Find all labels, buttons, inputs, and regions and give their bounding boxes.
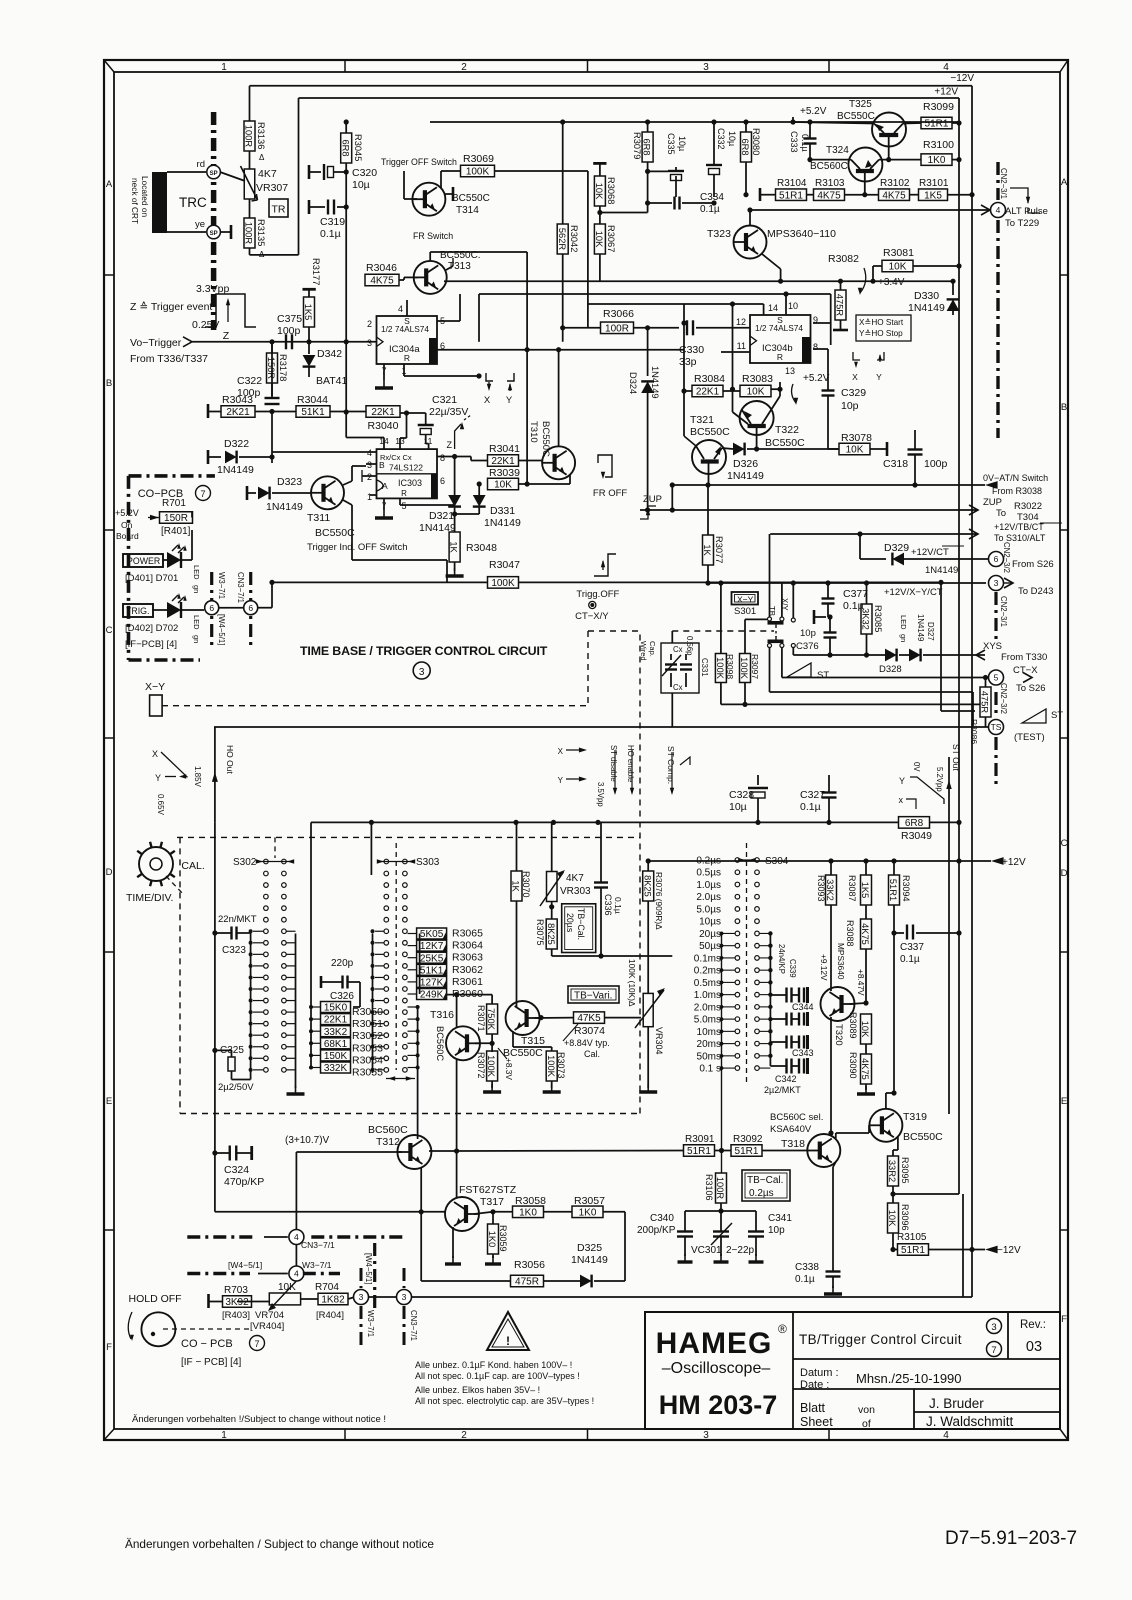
wire ZUP row	[640, 509, 978, 511]
svg-text:R3095: R3095	[900, 1157, 910, 1184]
svg-text:[R404]: [R404]	[316, 1310, 344, 1321]
svg-text:100K: 100K	[715, 657, 725, 680]
svg-text:Cx: Cx	[673, 645, 683, 654]
svg-text:6R8: 6R8	[340, 139, 350, 156]
svg-text:R3054: R3054	[352, 1054, 383, 1066]
wire +12V/X-Y/CT row	[708, 582, 986, 584]
IC304a	[377, 316, 438, 364]
svg-text:−12V: −12V	[950, 73, 974, 84]
S303 left bus	[372, 934, 374, 1074]
CAL TIME/DIV knob	[139, 847, 173, 881]
resistor R3079	[642, 132, 653, 162]
svg-text:TB−Cal.: TB−Cal.	[747, 1175, 783, 1186]
svg-text:03: 03	[1026, 1339, 1042, 1355]
svg-text:D330: D330	[914, 290, 939, 302]
svg-text:R3103: R3103	[815, 178, 845, 189]
wire CT-X row	[782, 677, 988, 679]
svg-text:BC560C: BC560C	[435, 1026, 445, 1061]
resistor R3091	[457, 1150, 684, 1153]
svg-text:[W4−5/1]: [W4−5/1]	[228, 1260, 262, 1270]
svg-text:R3048: R3048	[466, 542, 497, 554]
S302 left bus	[250, 931, 252, 1075]
SP contact rd	[167, 171, 206, 173]
svg-text:13: 13	[785, 366, 795, 376]
svg-text:Z ≙ Trigger event: Z ≙ Trigger event	[130, 301, 212, 313]
svg-text:HO enable: HO enable	[626, 745, 635, 782]
wire T315 collector	[516, 901, 518, 1007]
X-Y switch box	[732, 592, 759, 605]
capacitor C318	[908, 448, 923, 450]
svg-text:C338: C338	[795, 1262, 819, 1273]
svg-text:22µ/35V: 22µ/35V	[429, 406, 468, 418]
svg-text:127K: 127K	[420, 978, 444, 989]
svg-text:4: 4	[367, 448, 372, 458]
svg-text:0.5ms: 0.5ms	[694, 978, 721, 989]
svg-text:100K: 100K	[491, 578, 515, 589]
svg-text:R3104: R3104	[777, 178, 807, 189]
resistor R3070	[511, 871, 522, 901]
svg-text:R3093: R3093	[816, 875, 826, 902]
XY bracket symbols	[853, 352, 860, 360]
svg-text:Cal.: Cal.	[584, 1049, 600, 1059]
svg-text:R3042: R3042	[569, 225, 579, 252]
svg-text:R3097: R3097	[750, 654, 760, 679]
svg-text:100K: 100K	[546, 1055, 556, 1078]
transistor T311	[311, 476, 344, 509]
wire T312 base from conn4	[296, 1151, 402, 1153]
svg-text:51R1: 51R1	[735, 1146, 759, 1157]
svg-text:2: 2	[461, 62, 467, 73]
svg-text:8: 8	[813, 342, 818, 352]
svg-text:R3106: R3106	[704, 1174, 714, 1201]
svg-text:R3052: R3052	[352, 1030, 383, 1042]
pot VR303	[551, 822, 553, 872]
svg-text:750K: 750K	[486, 1008, 496, 1031]
svg-text:POWER: POWER	[127, 556, 160, 566]
resistor R3085	[861, 604, 872, 634]
svg-text:1K0: 1K0	[487, 1231, 497, 1248]
R306x vertical bus	[370, 822, 372, 875]
svg-text:R3055: R3055	[352, 1067, 383, 1079]
svg-text:2µ2/MKT: 2µ2/MKT	[764, 1085, 801, 1095]
svg-text:15K0: 15K0	[324, 1003, 348, 1014]
svg-text:R3022: R3022	[1014, 501, 1042, 512]
svg-text:10K: 10K	[846, 445, 864, 456]
svg-text:22K1: 22K1	[371, 407, 395, 418]
svg-text:100K (10K)Δ: 100K (10K)Δ	[627, 959, 637, 1007]
svg-text:J. Waldschmitt: J. Waldschmitt	[926, 1414, 1014, 1429]
svg-text:R3068: R3068	[606, 177, 616, 204]
wire T317 emitter	[452, 1227, 454, 1258]
svg-text:6: 6	[209, 603, 214, 613]
svg-text:C318: C318	[883, 458, 908, 470]
svg-text:FR OFF: FR OFF	[593, 488, 627, 499]
POWER box	[123, 554, 163, 567]
S302 right bus	[295, 934, 297, 1079]
warning triangle	[487, 1312, 529, 1350]
svg-text:R3089: R3089	[848, 1012, 858, 1039]
svg-text:R3091: R3091	[685, 1134, 715, 1145]
svg-text:0.1µ: 0.1µ	[320, 228, 341, 240]
svg-text:R3046: R3046	[366, 262, 397, 274]
svg-text:BC550C: BC550C	[903, 1131, 943, 1143]
svg-text:5.0µs: 5.0µs	[696, 904, 721, 915]
svg-text:LED: LED	[899, 615, 908, 630]
svg-text:B: B	[379, 460, 385, 470]
wire loop IC304 upper	[479, 293, 831, 295]
X Y pulse symbol mid	[486, 373, 493, 381]
svg-text:C376: C376	[796, 641, 819, 652]
wire pin8 Z node	[437, 456, 471, 458]
svg-text:R3075: R3075	[535, 919, 545, 946]
svg-text:10p: 10p	[768, 1225, 785, 1236]
wire T318 emitter	[833, 1162, 836, 1167]
wire T312 base through	[429, 1150, 457, 1152]
capacitor C324	[229, 1146, 231, 1161]
svg-text:4: 4	[398, 304, 403, 314]
wire x527 vertical	[526, 252, 528, 484]
svg-text:470p/KP: 470p/KP	[224, 1176, 264, 1188]
svg-text:100R: 100R	[605, 323, 629, 334]
wire ALT pulse row	[750, 209, 990, 211]
resistor R3096	[888, 1203, 899, 1233]
svg-text:CO − PCB: CO − PCB	[181, 1338, 233, 1350]
S301 wires	[781, 583, 783, 617]
wire T316 collector	[456, 995, 458, 1027]
svg-text:IC303: IC303	[398, 478, 422, 488]
CRT deflection dash line	[211, 112, 217, 330]
svg-text:0.56p: 0.56p	[685, 636, 694, 656]
svg-text:R3081: R3081	[883, 247, 914, 259]
svg-text:22K1: 22K1	[696, 387, 720, 398]
dashed box timebase	[177, 836, 640, 838]
svg-text:0.1µ: 0.1µ	[700, 204, 720, 215]
S304 dash wiper	[746, 843, 748, 1082]
wire +12V/TB/CT row	[770, 533, 978, 535]
svg-text:Z: Z	[223, 330, 230, 342]
wire T315 emitter	[512, 1031, 514, 1047]
svg-text:24n4/KP: 24n4/KP	[777, 944, 786, 974]
svg-text:1.0µs: 1.0µs	[696, 880, 721, 891]
svg-text:[D401] D701: [D401] D701	[125, 573, 178, 584]
svg-text:CN3−7/1: CN3−7/1	[236, 572, 245, 603]
svg-text:4K75: 4K75	[860, 923, 870, 945]
svg-text:3.3Vpp: 3.3Vpp	[196, 283, 229, 295]
svg-text:51R1: 51R1	[779, 190, 803, 201]
svg-text:C330: C330	[679, 344, 704, 356]
wire S303 bus to T312	[417, 1007, 419, 1139]
svg-text:5.0ms: 5.0ms	[694, 1015, 721, 1026]
svg-text:+8.47V: +8.47V	[856, 969, 866, 996]
svg-text:Alle unbez. Elkos haben 35V– !: Alle unbez. Elkos haben 35V– !	[415, 1385, 540, 1395]
svg-text:R3099: R3099	[923, 101, 954, 113]
svg-text:R3057: R3057	[574, 1195, 605, 1207]
svg-text:HAMEG: HAMEG	[656, 1327, 773, 1360]
sheet circles	[987, 1319, 1002, 1334]
wire HO out vertical	[214, 727, 216, 822]
svg-text:From T330: From T330	[1001, 652, 1047, 663]
svg-text:C: C	[1061, 838, 1068, 849]
svg-text:R3061: R3061	[452, 976, 483, 988]
svg-text:T321: T321	[690, 414, 714, 426]
svg-text:13: 13	[395, 436, 405, 446]
border frame	[104, 60, 1068, 1440]
capacitor C343	[785, 1036, 787, 1049]
svg-text:R3102: R3102	[880, 178, 910, 189]
svg-text:1: 1	[221, 1430, 227, 1441]
wire diode join	[454, 508, 456, 514]
svg-text:1.85V: 1.85V	[193, 766, 202, 788]
svg-text:TS: TS	[991, 722, 1002, 732]
svg-text:A: A	[106, 179, 113, 190]
svg-text:10µ: 10µ	[727, 131, 737, 146]
wire +12V right bus	[958, 98, 960, 1194]
svg-text:10µ: 10µ	[352, 179, 370, 191]
svg-text:[D402] D702: [D402] D702	[125, 623, 178, 634]
svg-text:SP: SP	[210, 231, 218, 237]
svg-text:C: C	[106, 625, 113, 636]
svg-text:20µs: 20µs	[565, 913, 575, 933]
svg-text:C375: C375	[277, 313, 302, 325]
svg-text:+3.4V: +3.4V	[878, 277, 905, 288]
svg-text:Trigg.OFF: Trigg.OFF	[576, 589, 619, 600]
svg-text:4K7: 4K7	[566, 873, 584, 884]
svg-text:4K75: 4K75	[370, 276, 394, 287]
svg-text:R3045: R3045	[353, 134, 363, 161]
svg-text:1N4149: 1N4149	[908, 302, 945, 314]
svg-text:BC560C: BC560C	[810, 161, 848, 172]
svg-text:332K: 332K	[324, 1063, 348, 1074]
svg-text:0.1µ: 0.1µ	[800, 801, 821, 813]
svg-text:D322: D322	[224, 438, 249, 450]
svg-text:TB/Trigger Control Circuit: TB/Trigger Control Circuit	[799, 1332, 962, 1347]
svg-text:51R1: 51R1	[888, 879, 898, 901]
svg-text:−12V: −12V	[997, 1245, 1021, 1256]
svg-text:X−Y: X−Y	[737, 595, 754, 605]
svg-text:[W4−5/1]: [W4−5/1]	[364, 1253, 373, 1284]
ZUP step symbol	[640, 506, 656, 519]
svg-text:100R: 100R	[244, 222, 254, 245]
svg-text:150R: 150R	[266, 357, 276, 380]
capacitor C334	[673, 197, 675, 210]
svg-text:XYS: XYS	[983, 641, 1002, 652]
svg-text:R3039: R3039	[489, 467, 520, 479]
svg-text:W3−7/1: W3−7/1	[302, 1260, 332, 1270]
svg-text:D: D	[106, 867, 113, 878]
svg-text:R3063: R3063	[452, 952, 483, 964]
svg-text:T315: T315	[521, 1035, 545, 1047]
svg-text:R3051: R3051	[352, 1018, 383, 1030]
svg-text:150K: 150K	[324, 1051, 348, 1062]
svg-text:KSA640V: KSA640V	[770, 1124, 812, 1135]
svg-text:R3044: R3044	[297, 394, 328, 406]
TB-Cal 20us box	[562, 904, 596, 953]
svg-text:Trigger OFF Switch: Trigger OFF Switch	[381, 157, 457, 167]
wire C335 row	[648, 170, 668, 172]
svg-text:From R3038: From R3038	[992, 486, 1042, 496]
svg-text:2: 2	[367, 319, 372, 329]
svg-text:Y: Y	[155, 773, 161, 783]
svg-text:S304: S304	[765, 856, 789, 867]
transistor T315	[506, 1001, 540, 1035]
svg-text:ALT Pulse: ALT Pulse	[1005, 206, 1048, 217]
svg-text:To S310/ALT: To S310/ALT	[994, 533, 1046, 543]
svg-text:C322: C322	[237, 375, 262, 387]
resistor R3094	[889, 875, 900, 905]
svg-text:BC550C: BC550C	[837, 111, 875, 122]
svg-text:R3080: R3080	[751, 128, 761, 155]
svg-text:8K25: 8K25	[546, 923, 556, 945]
svg-text:150R: 150R	[164, 513, 188, 524]
wire row 1211 left	[215, 1211, 445, 1213]
svg-text:T318: T318	[781, 1138, 805, 1150]
svg-text:LED: LED	[192, 565, 201, 580]
svg-text:6: 6	[440, 476, 445, 486]
svg-text:TRC: TRC	[179, 195, 207, 210]
svg-text:C335: C335	[666, 133, 676, 155]
svg-text:20ms: 20ms	[697, 1039, 721, 1050]
svg-text:3K32: 3K32	[861, 608, 871, 630]
svg-text:200p/KP: 200p/KP	[637, 1225, 676, 1236]
svg-text:+5.2V: +5.2V	[803, 373, 830, 384]
svg-text:To T229: To T229	[1005, 218, 1039, 229]
CN2 dash below 3	[994, 592, 997, 640]
svg-text:gn: gn	[192, 635, 201, 643]
resistor R3178	[271, 342, 273, 353]
svg-text:T325: T325	[849, 99, 872, 110]
svg-text:Datum :: Datum :	[800, 1367, 839, 1379]
resistor R3074	[574, 1012, 605, 1024]
wire -12V right bus	[971, 86, 973, 1297]
svg-text:T314: T314	[456, 205, 479, 216]
svg-text:+12V: +12V	[934, 87, 958, 98]
svg-text:ST Out: ST Out	[951, 744, 961, 771]
svg-text:X: X	[852, 372, 858, 382]
svg-text:D326: D326	[733, 458, 758, 470]
svg-text:CT−X/Y: CT−X/Y	[575, 611, 609, 622]
svg-text:6: 6	[248, 603, 253, 613]
svg-text:51R1: 51R1	[901, 1245, 925, 1256]
svg-text:ST: ST	[1051, 710, 1063, 721]
svg-text:R3077: R3077	[714, 536, 724, 563]
svg-text:4: 4	[294, 1269, 299, 1279]
S302 ground	[295, 1078, 297, 1088]
svg-text:10K: 10K	[860, 1021, 870, 1038]
IC304a pin wires	[406, 300, 408, 316]
svg-text:MPS3640: MPS3640	[836, 943, 846, 980]
svg-text:TRIG.: TRIG.	[126, 606, 149, 616]
svg-text:2: 2	[461, 1430, 467, 1441]
svg-text:2.0µs: 2.0µs	[696, 892, 721, 903]
svg-text:1K: 1K	[449, 541, 459, 553]
capacitor C320	[309, 171, 321, 173]
wire 6R8 bus row	[311, 821, 899, 823]
IC304b wedge	[750, 336, 757, 346]
svg-text:3: 3	[367, 338, 372, 348]
svg-text:VR303: VR303	[560, 886, 591, 897]
TS connector	[989, 720, 1004, 735]
C340 rails	[685, 1210, 756, 1212]
svg-text:R3065: R3065	[452, 928, 483, 940]
svg-text:0.1 s: 0.1 s	[699, 1064, 721, 1075]
svg-text:1K5: 1K5	[303, 304, 313, 321]
svg-text:1K: 1K	[702, 544, 712, 556]
svg-text:2−22p: 2−22p	[726, 1245, 755, 1256]
svg-text:CAL.: CAL.	[181, 860, 204, 872]
ST comp ramp	[680, 757, 690, 765]
svg-text:TB−Cal.: TB−Cal.	[576, 908, 586, 940]
svg-text:4K75: 4K75	[817, 190, 841, 201]
svg-text:R3078: R3078	[841, 432, 872, 444]
svg-text:R3079: R3079	[632, 132, 642, 159]
svg-text:10p: 10p	[841, 400, 859, 412]
svg-text:Vo−Trigger: Vo−Trigger	[130, 337, 182, 349]
svg-text:x: x	[899, 795, 904, 805]
svg-text:D7−5.91−203-7: D7−5.91−203-7	[945, 1528, 1077, 1549]
svg-text:R3092: R3092	[733, 1134, 763, 1145]
svg-text:R3076 (909R)Δ: R3076 (909R)Δ	[654, 872, 664, 930]
svg-text:C344: C344	[792, 1002, 814, 1012]
svg-text:100R: 100R	[244, 125, 254, 148]
svg-text:S: S	[404, 316, 410, 326]
svg-text:14: 14	[768, 303, 778, 313]
wire long row y281	[444, 280, 953, 282]
resistor R3049	[899, 817, 930, 829]
title circle 3	[413, 662, 430, 679]
resistor R3071	[487, 1004, 498, 1034]
svg-text:E: E	[106, 1096, 112, 1107]
ST ramp symbol	[787, 663, 811, 677]
svg-text:0.1ms: 0.1ms	[694, 953, 721, 964]
svg-text:6R8: 6R8	[642, 138, 652, 155]
svg-text:LED: LED	[192, 615, 201, 630]
svg-text:25K5: 25K5	[420, 953, 444, 964]
svg-text:®: ®	[778, 1322, 787, 1336]
pulse symbol fr	[598, 455, 612, 477]
svg-text:475R: 475R	[515, 1277, 539, 1288]
svg-text:C321: C321	[432, 394, 457, 406]
svg-text:R703: R703	[224, 1285, 248, 1296]
capacitor C337	[906, 925, 908, 940]
wire y704 row	[721, 703, 980, 705]
svg-text:4: 4	[996, 205, 1001, 215]
capacitor C342	[785, 1059, 787, 1074]
svg-text:1: 1	[367, 492, 372, 502]
svg-text:1K5: 1K5	[860, 882, 870, 899]
CO-PCB boundary	[129, 474, 215, 478]
svg-text:+5.2V: +5.2V	[115, 508, 139, 518]
wire +12V row 861	[647, 860, 991, 862]
svg-text:R3073: R3073	[556, 1052, 566, 1079]
LED D702	[153, 609, 167, 611]
CN2-3/1 dash line	[996, 162, 999, 200]
svg-text:Rev.:: Rev.:	[1020, 1319, 1046, 1331]
resistor R3048	[449, 532, 460, 562]
resistor R3045	[345, 122, 347, 133]
transistor T318	[807, 1134, 840, 1167]
resistor R3075	[546, 919, 557, 949]
frame ticks	[344, 60, 346, 72]
svg-text:Y: Y	[876, 372, 882, 382]
wire TR loop	[249, 248, 251, 255]
svg-text:1N4149: 1N4149	[571, 1254, 608, 1266]
wire -12V top rail	[250, 85, 973, 87]
TRC block	[152, 172, 167, 233]
svg-text:6R8: 6R8	[740, 138, 750, 155]
svg-text:C320: C320	[352, 167, 377, 179]
svg-text:4K7: 4K7	[258, 168, 277, 180]
svg-text:100K: 100K	[486, 1055, 496, 1078]
